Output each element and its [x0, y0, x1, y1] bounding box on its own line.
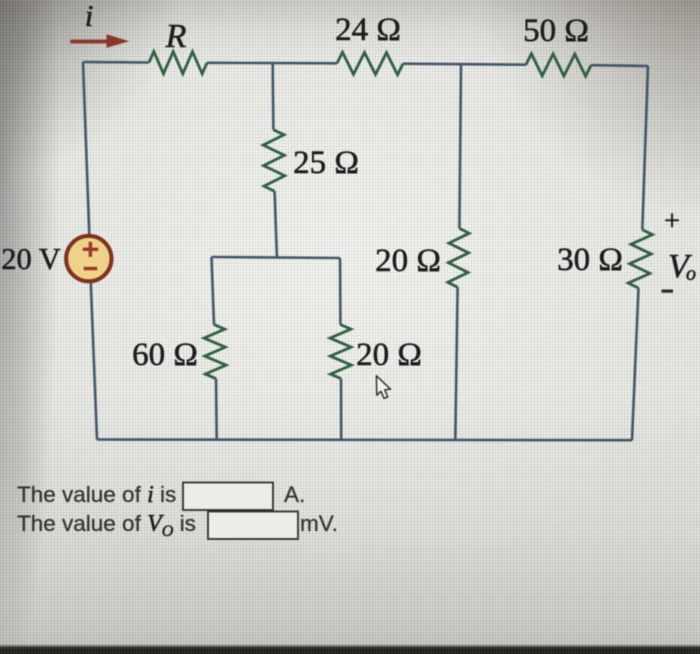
wire right	[632, 66, 648, 440]
wire bottom	[97, 438, 632, 441]
label minus Vo	[662, 290, 674, 293]
wire branch 20ohm inner	[340, 258, 341, 440]
mouse cursor	[376, 376, 390, 399]
wire branch 25ohm	[273, 63, 277, 257]
svg-text:A.: A.	[284, 482, 305, 507]
label Vo	[668, 248, 696, 285]
svg-text:24 Ω: 24 Ω	[335, 12, 401, 48]
question text line 2	[17, 511, 338, 540]
resistor 50ohm	[526, 54, 591, 76]
label 20ohm mid	[375, 243, 441, 279]
wire inner box top	[212, 257, 341, 258]
voltage source V1 20V	[66, 236, 111, 281]
answer box i	[183, 483, 273, 511]
svg-text:o: o	[686, 263, 696, 285]
label 24ohm	[335, 12, 401, 48]
label plus Vo	[664, 206, 680, 237]
svg-text:20 Ω: 20 Ω	[356, 337, 422, 373]
svg-text:The value of VO is: The value of VO is	[17, 511, 196, 540]
svg-text:R: R	[165, 18, 187, 55]
resistor 60ohm	[204, 325, 226, 379]
resistor 24ohm	[337, 52, 403, 74]
label 30ohm	[557, 242, 623, 278]
wire branch 60ohm	[212, 257, 217, 440]
svg-text:The value of i is: The value of i is	[17, 482, 176, 508]
svg-text:20 V: 20 V	[1, 242, 61, 276]
resistor 20ohm mid	[448, 228, 469, 287]
label 20ohm inner	[356, 337, 422, 373]
resistor 30ohm	[628, 230, 652, 288]
wire left	[83, 62, 97, 440]
svg-text:50 Ω: 50 Ω	[523, 13, 589, 49]
resistor 25ohm	[263, 130, 285, 192]
question text line 1	[17, 482, 305, 508]
resistor 20ohm inner	[330, 325, 351, 379]
svg-text:+: +	[664, 206, 680, 237]
resistor R	[149, 52, 207, 74]
label 50ohm	[523, 13, 589, 49]
wire branch 20ohm mid	[455, 65, 461, 440]
label 60ohm	[132, 337, 198, 373]
current arrow i	[70, 34, 129, 48]
label R	[165, 18, 187, 55]
svg-text:60 Ω: 60 Ω	[132, 337, 198, 373]
wire top	[83, 62, 648, 66]
label 25ohm	[293, 145, 359, 181]
label i	[85, 0, 94, 33]
svg-text:30 Ω: 30 Ω	[557, 242, 623, 278]
svg-text:mV.: mV.	[300, 511, 338, 536]
label 20V	[1, 242, 61, 276]
answer box Vo	[208, 512, 298, 540]
svg-text:i: i	[85, 0, 94, 33]
svg-text:25 Ω: 25 Ω	[293, 145, 359, 181]
svg-text:20 Ω: 20 Ω	[375, 243, 441, 279]
